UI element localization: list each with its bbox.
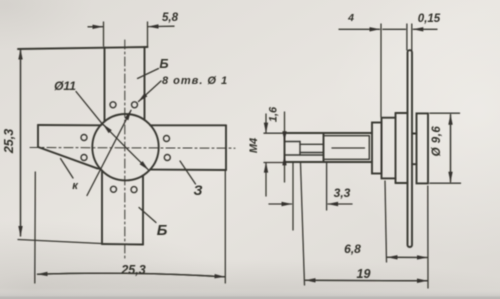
center line vertical (dash-dot) — [124, 40, 126, 258]
thread minor bottom line — [324, 158, 370, 160]
dimension 19 line with arrows — [306, 279, 428, 282]
hole bottom-left — [111, 186, 117, 192]
hub behind disc — [412, 134, 417, 165]
wire: top edge of top tab + extension line to left dim — [18, 47, 148, 49]
svg-text:5,8: 5,8 — [162, 12, 179, 24]
dimension 0.15 extension lines (disc edges extended) — [406, 24, 408, 50]
shaft center dash — [332, 147, 365, 149]
extension line 6.8 left (flange extended) — [385, 181, 387, 262]
slot lower line — [285, 154, 324, 156]
dimension 3.3 right arrow — [328, 203, 352, 205]
hole right-upper — [164, 136, 170, 142]
plate outline: bottom edge left stub — [97, 167, 101, 170]
dimension 4 extension line — [380, 24, 382, 117]
rear cylinder — [417, 113, 429, 183]
extension line bottom-left for 25.3 — [34, 172, 37, 283]
dimension 5.8 right arrow — [149, 25, 175, 27]
bottom tab left edge — [101, 171, 103, 244]
dimension 5.8 left arrow — [88, 26, 103, 28]
svg-text:25,3: 25,3 — [2, 129, 16, 154]
svg-text:Ø 9,6: Ø 9,6 — [431, 126, 443, 157]
slot upper line — [285, 141, 301, 143]
extension line for 3.3 left — [292, 163, 294, 230]
dimension 4 line with arrow — [339, 28, 380, 30]
extension line bottom-right for 25.3 — [224, 171, 226, 283]
bushing behind shaft — [372, 123, 382, 174]
M4 extension lines — [264, 132, 285, 134]
svg-text:Б: Б — [159, 56, 168, 71]
svg-text:6,8: 6,8 — [344, 242, 361, 256]
dimension 6.8 line with arrows — [388, 256, 428, 258]
dimension 25.3 vertical line with arrows — [20, 50, 22, 237]
leader for Б top — [138, 69, 159, 79]
shaft tip face — [284, 133, 286, 162]
Ø9.6 extension line bottom — [430, 182, 461, 184]
hole top-right — [132, 102, 138, 108]
svg-text:4: 4 — [347, 12, 354, 24]
bottom tab bottom edge — [102, 243, 143, 246]
svg-text:Ø11: Ø11 — [54, 79, 76, 93]
dimension 25.3 bottom line with arrows — [38, 273, 225, 277]
leader for 8 отв. Ø 1 — [139, 81, 162, 102]
plate outline: chamfer diagonal — [38, 147, 97, 168]
svg-text:1,6: 1,6 — [268, 106, 280, 122]
svg-text:19: 19 — [357, 267, 371, 281]
leader for Б bottom — [139, 208, 156, 223]
thread end vertical — [368, 136, 370, 160]
hole left-lower — [81, 155, 87, 161]
shaft top edge — [285, 132, 373, 134]
svg-text:8 отв. Ø 1: 8 отв. Ø 1 — [162, 75, 228, 87]
dimension 0.15 middle segment — [383, 28, 406, 30]
dimension M4 arrows — [265, 114, 267, 133]
dimension 0.15 right arrow — [413, 28, 437, 30]
svg-text:Б: Б — [157, 222, 168, 239]
thread minor top line — [324, 135, 370, 137]
wire: extension line from tab bottom to left dim — [18, 240, 101, 244]
wire: extension of tab left edge up to 5.8 dim — [103, 22, 105, 46]
thread start vertical — [323, 133, 325, 162]
svg-text:0,15: 0,15 — [418, 13, 441, 25]
wire: top tab right edge — [144, 47, 146, 120]
hole right-lower — [164, 155, 170, 161]
svg-text:М4: М4 — [248, 138, 260, 153]
bottom scan shadow band — [0, 288, 500, 299]
hole top-left — [110, 102, 116, 108]
slot inner upper line — [300, 143, 324, 145]
hole left-upper — [81, 135, 87, 141]
extension line right (rear face extended) — [427, 186, 429, 288]
extension line for 3.3 right — [326, 163, 328, 210]
plate outline: left edge — [37, 125, 39, 147]
center line horizontal (dash-dot) — [30, 147, 235, 150]
plate outline: bottom edge right part — [151, 169, 227, 171]
bottom tab right edge — [142, 175, 144, 244]
extension line 19 left (slot end extended) — [301, 163, 305, 285]
plate outline: right edge — [225, 125, 227, 170]
svg-text:25,3: 25,3 — [120, 263, 145, 277]
step between flange and cylinder — [395, 113, 397, 118]
wire: top tab left edge — [104, 48, 106, 122]
hole bottom-right — [131, 187, 137, 193]
dimension Ø9.6 vertical with arrows — [450, 115, 452, 182]
leader arrow through circle to top-right hole — [87, 110, 131, 195]
disc (0.15 thick) — [408, 50, 413, 247]
plate outline: top edge right part — [150, 124, 226, 126]
leader for К — [61, 159, 74, 179]
shaft bottom edge — [285, 161, 373, 163]
svg-text:3,3: 3,3 — [334, 186, 351, 200]
svg-text:З: З — [194, 182, 203, 198]
slot end vertical — [299, 142, 301, 156]
wire: extension of tab right edge up to 5.8 dim — [147, 22, 149, 47]
dimension 1.6 arrows — [284, 112, 286, 141]
flange — [382, 118, 396, 179]
dimension Ø11 diameter arrow — [76, 92, 103, 125]
body circle Ø11 — [92, 114, 158, 180]
dimension 3.3 left arrow — [269, 203, 292, 205]
slot inner lower line — [300, 152, 324, 154]
cylinder front section — [396, 113, 408, 183]
plate outline: top edge left part — [38, 124, 101, 126]
Ø9.6 extension line top — [430, 112, 460, 114]
leader for З — [180, 161, 196, 184]
